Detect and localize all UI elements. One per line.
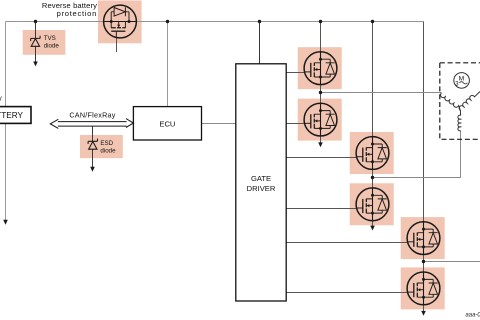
label: ESD diode [100,140,116,155]
highlight pad: high-side MOSFET leg 2 [350,132,394,174]
wire: phase 2 to motor [373,130,461,177]
junction node: leg 1 top [319,20,322,23]
wire: gate line HS3 [286,242,407,244]
label: reverse battery protection [42,1,97,18]
svg-text:DRIVER: DRIVER [247,184,276,193]
wire: gate line LS1 [286,123,304,125]
svg-text:BATTERY: BATTERY [0,111,24,120]
svg-text:aaa-0: aaa-0 [465,313,480,319]
wire: TVS branch [33,22,38,67]
battery box [0,107,31,124]
motor winding phase 3 coil [459,92,480,111]
wire: bridge leg 3 vertical with ground arrow [421,22,426,316]
wire: gate line LS3 [286,292,407,294]
wire: reverse protection MOSFET gate lead [116,38,118,52]
junction node: gate driver supply tap [258,20,261,23]
svg-text:CAN/FlexRay: CAN/FlexRay [69,110,115,119]
CAN/FlexRay bus double arrow [50,119,133,129]
wire: gate line LS2 [286,208,356,210]
junction node: phase 1 [319,91,322,94]
svg-text:diode: diode [44,43,60,50]
ESD diode [88,139,97,150]
wire: supply drop to gate driver [259,22,261,64]
svg-text:y: y [0,96,2,103]
motor winding phase 2 coil [458,111,461,131]
motor block dashed enclosure [440,63,480,140]
wire: phase 1 to motor [321,92,442,94]
wire: phase 3 to right edge [424,261,480,263]
junction node: phase 3 [422,260,425,263]
highlight pad: low-side MOSFET leg 3 [401,267,445,309]
junction node: leg 2 top [371,20,374,23]
svg-text:TVS: TVS [44,35,56,42]
low-side MOSFET leg 1 [304,103,337,136]
highlight pad: ESD diode [80,135,123,158]
highlight pad: low-side MOSFET leg 1 [298,99,342,141]
svg-text:GATE: GATE [251,174,271,183]
motor winding phase 1 coil [441,93,461,111]
label: TVS diode [44,35,60,50]
wire: bridge leg 2 vertical with ground arrow [370,22,375,231]
junction node: phase 2 [371,176,374,179]
highlight pad: high-side MOSFET leg 3 [401,217,445,259]
wire: gate line HS1 [286,72,304,74]
svg-text:diode: diode [100,148,116,155]
wire: supply drop to ECU [167,22,169,107]
highlight pad: high-side MOSFET leg 1 [298,47,342,89]
ECU box [133,107,201,140]
low-side MOSFET leg 2 [356,188,389,221]
wire: ESD branch with arrow [90,126,95,172]
wire: ECU to gate driver [202,123,237,125]
gate driver box U1 [236,64,286,301]
highlight pad: reverse battery protection MOSFET [98,0,142,43]
wire: top supply rail from battery to bridge [6,21,424,23]
high-side MOSFET leg 2 [356,137,389,170]
wire: gate line HS2 [286,157,356,159]
highlight pad: low-side MOSFET leg 2 [350,183,394,225]
high-side MOSFET leg 3 [407,222,440,255]
reverse battery protection MOSFET [104,5,137,38]
TVS diode [31,36,40,47]
svg-text:protection: protection [57,9,97,18]
low-side MOSFET leg 3 [407,272,440,305]
junction node: ECU supply tap [166,20,169,23]
svg-text:ESD: ESD [100,140,113,147]
high-side MOSFET leg 1 [304,52,337,85]
wire: bridge leg 1 vertical with ground arrow [318,22,323,148]
motor symbol M 3~ [454,73,470,89]
wire: battery vertical line with ground arrow [3,22,8,225]
svg-text:ECU: ECU [159,119,175,128]
highlight pad: TVS diode [23,30,66,55]
junction node: TVS tap [34,20,37,23]
